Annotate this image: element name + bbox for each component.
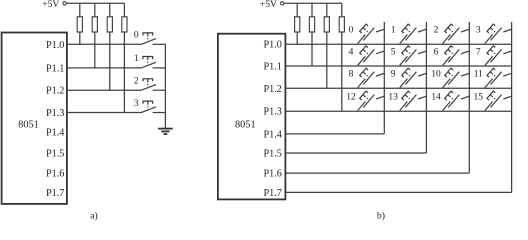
svg-text:15: 15 xyxy=(474,93,484,103)
wire: +5V drop to resistor R5 xyxy=(296,3,298,17)
svg-text:+5V: +5V xyxy=(42,0,59,10)
svg-text:2: 2 xyxy=(434,26,439,36)
wire: resistor R2 lower lead to P1.1 row xyxy=(94,32,96,68)
resistor R3 (pull-up for P1.2) xyxy=(107,17,112,32)
svg-text:4: 4 xyxy=(349,47,354,57)
wire: keypad column 1 vertical xyxy=(425,22,427,153)
pushbutton switch key 1 row P1.0 column P1.5 xyxy=(400,24,427,43)
wire: keypad column 2 vertical xyxy=(468,22,470,173)
wire: U2 P1.6 to keypad column 2 xyxy=(286,172,470,174)
svg-text:13: 13 xyxy=(388,93,398,103)
wire: U2 P1.7 to keypad column 3 xyxy=(286,191,512,193)
pushbutton switch key 12 row P1.3 column P1.4 xyxy=(358,91,385,110)
svg-text:0: 0 xyxy=(134,31,139,41)
svg-text:b): b) xyxy=(377,210,385,221)
wire: +5V drop to resistor R1 xyxy=(79,3,81,17)
wire: U2 P1.4 to keypad column 0 xyxy=(286,133,385,135)
pushbutton switch key 2 (circuit a) xyxy=(141,79,165,90)
svg-text:11: 11 xyxy=(474,70,483,80)
ground symbol (circuit a) xyxy=(158,129,173,134)
resistor R8 (pull-up for P1.3 of U2) xyxy=(339,17,344,32)
wire: +5V rail (circuit b) xyxy=(284,2,342,4)
svg-text:7: 7 xyxy=(476,47,481,57)
wire: U2 P1.5 to keypad column 1 xyxy=(286,152,427,154)
wire: common ground bus of keys (circuit a) xyxy=(164,44,166,128)
pushbutton switch key 10 row P1.2 column P1.6 xyxy=(443,68,470,87)
svg-text:8051: 8051 xyxy=(18,120,39,131)
wire: resistor R1 lower lead to P1.0 row xyxy=(79,32,81,44)
pushbutton switch key 15 row P1.3 column P1.7 xyxy=(485,91,512,110)
svg-text:P1.0: P1.0 xyxy=(263,40,281,51)
pushbutton switch key 0 row P1.0 column P1.4 xyxy=(358,24,385,43)
svg-text:P1.6: P1.6 xyxy=(46,169,64,180)
pushbutton switch key 1 (circuit a) xyxy=(141,57,165,68)
svg-text:P1.7: P1.7 xyxy=(46,188,64,199)
pushbutton switch key 13 row P1.3 column P1.5 xyxy=(400,91,427,110)
wire: +5V rail (circuit a) xyxy=(66,2,124,4)
svg-text:12: 12 xyxy=(346,93,356,103)
svg-text:P1.7: P1.7 xyxy=(263,188,281,199)
svg-text:P1.5: P1.5 xyxy=(263,149,281,160)
svg-text:P1.2: P1.2 xyxy=(263,84,281,95)
wire: U2 P1.2 keypad row line xyxy=(286,87,512,89)
IC U1 8051 body (circuit a) xyxy=(2,33,67,204)
wire: resistor R4 lower lead to P1.3 row xyxy=(123,32,125,113)
wire: +5V drop to resistor R4 xyxy=(123,3,125,17)
wire: U2 P1.1 keypad row line xyxy=(286,65,512,67)
svg-text:1: 1 xyxy=(134,54,139,64)
resistor R6 (pull-up for P1.1 of U2) xyxy=(309,17,314,32)
svg-text:8051: 8051 xyxy=(235,119,256,130)
wire: U1 P1.2 row to key 2 xyxy=(67,89,142,91)
svg-text:14: 14 xyxy=(431,93,441,103)
svg-text:P1.3: P1.3 xyxy=(46,108,64,119)
svg-text:P1.0: P1.0 xyxy=(46,40,64,51)
wire: U1 P1.0 row to key 0 xyxy=(67,43,142,45)
svg-text:P1.4: P1.4 xyxy=(46,128,64,139)
svg-text:5: 5 xyxy=(391,47,396,57)
svg-text:6: 6 xyxy=(434,47,439,57)
wire: U2 P1.3 keypad row line xyxy=(286,110,512,112)
pushbutton switch key 14 row P1.3 column P1.6 xyxy=(443,91,470,110)
pushbutton switch key 9 row P1.2 column P1.5 xyxy=(400,68,427,87)
pushbutton switch key 4 row P1.1 column P1.4 xyxy=(358,46,385,65)
wire: U2 P1.0 keypad row line xyxy=(286,43,512,45)
svg-text:P1.5: P1.5 xyxy=(46,148,64,159)
wire: +5V drop to resistor R2 xyxy=(94,3,96,17)
svg-text:3: 3 xyxy=(134,99,139,109)
pushbutton switch key 3 row P1.0 column P1.7 xyxy=(485,24,512,43)
wire: U1 P1.3 row to key 3 xyxy=(67,112,142,114)
resistor R1 (pull-up for P1.0) xyxy=(77,17,82,32)
pushbutton switch key 5 row P1.1 column P1.5 xyxy=(400,46,427,65)
svg-text:1: 1 xyxy=(391,26,396,36)
wire: resistor R3 lower lead to P1.2 row xyxy=(109,32,111,90)
wire: keypad column 0 vertical xyxy=(383,22,385,134)
wire: keypad column 3 vertical xyxy=(511,22,513,192)
svg-text:0: 0 xyxy=(349,26,354,36)
resistor R2 (pull-up for P1.1) xyxy=(92,17,97,32)
svg-text:P1.1: P1.1 xyxy=(46,63,64,74)
pushbutton switch key 8 row P1.2 column P1.4 xyxy=(358,68,385,87)
+5V terminal circle (circuit b) xyxy=(280,2,283,5)
wire: +5V drop to resistor R8 xyxy=(341,3,343,17)
resistor R4 (pull-up for P1.3) xyxy=(122,17,127,32)
svg-text:P1.2: P1.2 xyxy=(46,86,64,97)
wire: U1 P1.1 row to key 1 xyxy=(67,67,142,69)
svg-text:9: 9 xyxy=(391,70,396,80)
wire: +5V drop to resistor R3 xyxy=(109,3,111,17)
+5V terminal circle (circuit a) xyxy=(63,2,66,5)
svg-text:P1.1: P1.1 xyxy=(263,62,281,73)
pushbutton switch key 6 row P1.1 column P1.6 xyxy=(443,46,470,65)
svg-text:P1.3: P1.3 xyxy=(263,107,281,118)
resistor R5 (pull-up for P1.0 of U2) xyxy=(295,17,300,32)
pushbutton switch key 11 row P1.2 column P1.7 xyxy=(485,68,512,87)
svg-text:a): a) xyxy=(90,210,98,221)
wire: +5V drop to resistor R7 xyxy=(326,3,328,17)
pushbutton switch key 7 row P1.1 column P1.7 xyxy=(485,46,512,65)
wire: +5V drop to resistor R6 xyxy=(311,3,313,17)
pushbutton switch key 3 (circuit a) xyxy=(141,101,165,112)
svg-text:10: 10 xyxy=(431,70,441,80)
pushbutton switch key 0 (circuit a) xyxy=(141,33,165,44)
wire: resistor R6 lower lead to P1.1 row xyxy=(311,32,313,66)
wire: resistor R8 lower lead to P1.3 row xyxy=(341,32,343,111)
svg-text:P1.6: P1.6 xyxy=(263,169,281,180)
svg-text:P1.4: P1.4 xyxy=(263,129,281,140)
IC U2 8051 body (circuit b) xyxy=(218,34,286,200)
wire: resistor R5 lower lead to P1.0 row xyxy=(296,32,298,44)
wire: resistor R7 lower lead to P1.2 row xyxy=(326,32,328,88)
pushbutton switch key 2 row P1.0 column P1.6 xyxy=(443,24,470,43)
svg-text:2: 2 xyxy=(134,77,139,87)
resistor R7 (pull-up for P1.2 of U2) xyxy=(324,17,329,32)
svg-text:8: 8 xyxy=(349,70,354,80)
svg-text:3: 3 xyxy=(476,26,481,36)
svg-text:+5V: +5V xyxy=(260,0,277,10)
